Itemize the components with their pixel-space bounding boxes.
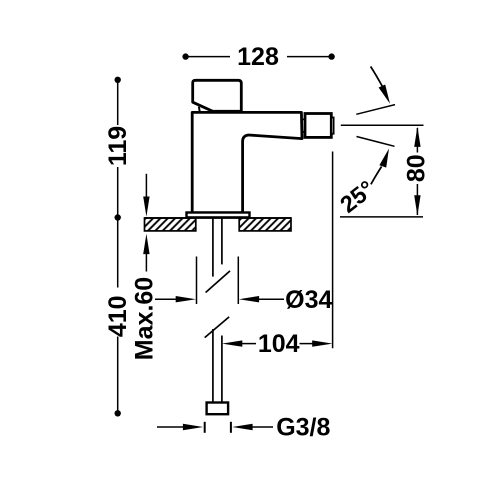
hole dim left arrow	[155, 298, 178, 300]
deck left slab hatched	[145, 218, 196, 231]
handle underside edge	[199, 107, 200, 113]
deck right slab hatched	[239, 218, 291, 231]
aerator neck groove	[302, 119, 305, 131]
spout reach reference line	[332, 152, 334, 349]
faucet body and spout outline	[192, 112, 302, 212]
svg-text:G3/8: G3/8	[276, 414, 330, 442]
Max.60 upper arrow	[145, 174, 147, 198]
G3/8 connection nut	[207, 403, 229, 415]
pipe break slash 1	[206, 271, 230, 293]
svg-text:80: 80	[402, 154, 430, 182]
aerator end tab	[331, 118, 333, 134]
aerator body	[305, 114, 331, 138]
angle lower curved arrow	[371, 167, 382, 185]
svg-text:104: 104	[258, 330, 300, 358]
dimension dots left	[115, 77, 121, 83]
dimension 119/410 vertical line	[117, 80, 119, 125]
hole diameter extension lines	[196, 257, 198, 305]
hole dim right arrow (O34)	[239, 296, 259, 302]
svg-text:128: 128	[237, 43, 279, 71]
G3/8 tick right	[230, 422, 232, 433]
G3/8 tick left	[204, 422, 206, 433]
pipe break slash 2	[205, 317, 229, 338]
base plate	[187, 213, 250, 218]
dim 80 arrows	[414, 127, 420, 147]
svg-text:410: 410	[104, 295, 132, 337]
svg-text:Max.60: Max.60	[131, 277, 159, 360]
angle upper reference line	[356, 105, 395, 115]
svg-text:119: 119	[104, 126, 132, 166]
deck surface line	[145, 217, 292, 219]
dim 80 vertical line	[416, 128, 418, 153]
dimension 128 end dots	[182, 53, 188, 59]
dim 80 top extension line	[341, 124, 424, 126]
G3/8 dim left tail	[157, 426, 185, 428]
dimension 104 right arrow	[300, 343, 315, 345]
angle upper curved arrow	[371, 67, 383, 88]
dim 80 bottom extension line	[340, 216, 423, 218]
dimension 104 left arrow	[222, 340, 242, 346]
Max.60 lower arrow	[143, 234, 149, 254]
angle lower reference line	[357, 137, 395, 147]
handle lever	[193, 80, 242, 111]
G3/8 right arrow	[232, 424, 252, 430]
supply pipe lower section	[212, 329, 214, 403]
dimension 128 line	[188, 56, 230, 58]
supply pipe upper section	[212, 218, 214, 277]
svg-text:Ø34: Ø34	[285, 286, 332, 314]
